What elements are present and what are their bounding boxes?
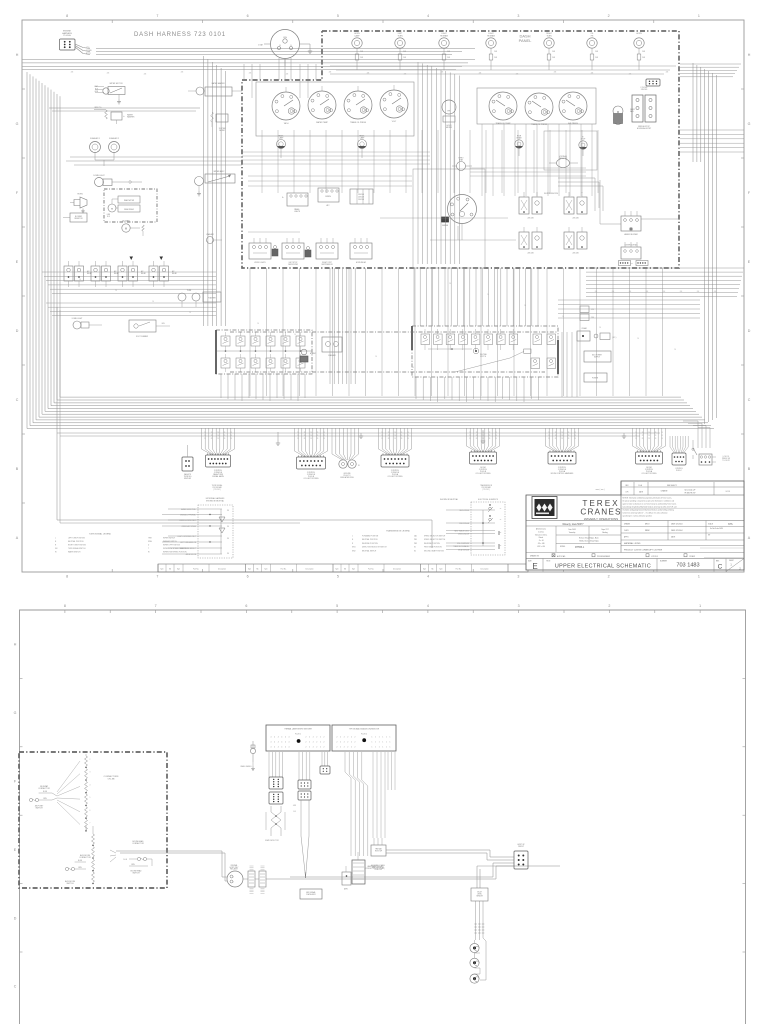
terminal strip X2 — [332, 725, 396, 751]
ECN strip — [621, 482, 744, 520]
svg-text:DOME LIGHT: DOME LIGHT — [72, 318, 83, 320]
text DASH HARNESS 723 0101 — [134, 32, 226, 38]
svg-text:2S: 2S — [637, 338, 639, 340]
svg-text:24S 24S: 24S 24S — [572, 218, 578, 220]
blower motor M5 — [122, 221, 145, 237]
svg-text:2S: 2S — [655, 438, 657, 440]
svg-text:TRANS OIL TEMP: TRANS OIL TEMP — [496, 122, 512, 125]
svg-text:L: L — [55, 538, 56, 540]
svg-text:WIPER OFF POSITION: WIPER OFF POSITION — [163, 545, 181, 547]
svg-text:2S: 2S — [257, 323, 259, 325]
svg-text:BLUE: BLUE — [43, 791, 47, 793]
svg-text:TURN SIG: TURN SIG — [184, 476, 192, 478]
svg-text:2S: 2S — [449, 283, 451, 285]
svg-text:COLLECTOR RING: COLLECTOR RING — [304, 478, 320, 480]
svg-text:1: 1 — [382, 747, 383, 749]
water shutoff — [211, 112, 228, 132]
dash panel enclosure (dashed) — [242, 31, 679, 268]
top area verticals into panel — [244, 64, 316, 98]
svg-text:4: 4 — [278, 742, 279, 744]
svg-text:2: 2 — [351, 742, 352, 744]
svg-text:WAVERLY OPERATIONS: WAVERLY OPERATIONS — [584, 517, 618, 521]
in-panel horizontal runs — [248, 176, 516, 240]
sway detector wires — [269, 752, 283, 777]
flasher glyph between relays 2 — [305, 247, 311, 258]
svg-text:24S: 24S — [71, 72, 74, 74]
upper mid horizontal links — [242, 152, 586, 176]
relay K8 left bank — [149, 261, 177, 287]
svg-text:GROUND LT FROM B+: GROUND LT FROM B+ — [180, 515, 196, 517]
central collector ring assembly — [227, 864, 243, 887]
svg-text:xxxx ( xxx ): xxxx ( xxx ) — [596, 489, 605, 491]
svg-text:2: 2 — [309, 737, 310, 739]
svg-text:WASHER: WASHER — [127, 116, 135, 119]
svg-text:2: 2 — [355, 747, 356, 749]
svg-text:4: 4 — [281, 742, 282, 744]
svg-text:C: C — [718, 564, 723, 571]
transmission legend text — [352, 530, 446, 553]
svg-text:WIPER - LO SPD ON LT: WIPER - LO SPD ON LT — [180, 520, 197, 522]
svg-text:24S: 24S — [249, 73, 252, 75]
svg-text:2: 2 — [344, 742, 345, 744]
svg-text:2S: 2S — [495, 435, 497, 437]
svg-text:SYSTEM: SYSTEM — [219, 128, 226, 130]
wire pair PAT to hoist connector — [386, 850, 514, 860]
suppressor/relay pair Z2 — [564, 192, 587, 220]
svg-text:2S: 2S — [407, 435, 409, 437]
ground at J8 — [481, 430, 485, 443]
svg-text:24S: 24S — [329, 72, 332, 74]
svg-text:SW2-24TH-4B: SW2-24TH-4B — [459, 523, 469, 525]
svg-text:1: 1 — [386, 747, 387, 749]
svg-text:CRANES: CRANES — [580, 508, 621, 517]
svg-text:D: D — [16, 329, 19, 333]
svg-text:2S: 2S — [642, 432, 644, 434]
svg-text:2S: 2S — [489, 435, 491, 437]
svg-text:PLUG A: PLUG A — [63, 34, 71, 37]
svg-text:2: 2 — [337, 747, 338, 749]
svg-text:HORN: HORN — [636, 33, 642, 35]
suppressor/relay pair Z1 — [519, 192, 542, 220]
svg-text:BOOM CONTROL HARNESS: BOOM CONTROL HARNESS — [551, 472, 574, 475]
svg-text:6: 6 — [247, 14, 249, 18]
relay K6 left bank — [91, 261, 119, 287]
resistor pack R6 — [350, 189, 373, 204]
svg-text:4: 4 — [271, 737, 272, 739]
svg-text:SWITCH: SWITCH — [132, 873, 140, 875]
PAT console box — [371, 838, 386, 856]
hourmeter M1 — [442, 100, 456, 129]
svg-text:BLOWER: BLOWER — [75, 216, 83, 218]
svg-text:B+: B+ — [282, 197, 284, 199]
svg-text:2S: 2S — [388, 438, 390, 440]
svg-text:2S: 2S — [495, 432, 497, 434]
svg-text:2S: 2S — [561, 435, 563, 437]
svg-text:2: 2 — [320, 747, 321, 749]
svg-text:8: 8 — [64, 604, 66, 608]
top horizontal wire band — [23, 60, 476, 112]
beacon lamp B2 — [470, 953, 479, 967]
svg-text:1: 1 — [386, 737, 387, 739]
svg-text:2: 2 — [344, 747, 345, 749]
rear wiper motor M4 — [107, 196, 140, 218]
svg-text:2S: 2S — [381, 435, 383, 437]
svg-text:SW2: SW2 — [352, 550, 356, 552]
svg-text:2S: 2S — [487, 294, 489, 296]
svg-text:2S: 2S — [489, 438, 491, 440]
svg-text:WORK LIGHTS: WORK LIGHTS — [254, 262, 265, 264]
svg-text:24S 24S: 24S 24S — [572, 253, 578, 255]
svg-text:5: 5 — [337, 14, 339, 18]
svg-text:24S: 24S — [646, 291, 648, 293]
svg-text:PLUG 2: PLUG 2 — [361, 733, 367, 735]
svg-text:24S: 24S — [595, 291, 597, 293]
svg-text:1: 1 — [382, 737, 383, 739]
flasher F1 — [90, 137, 115, 160]
svg-text:2S: 2S — [655, 435, 657, 437]
svg-text:1: 1 — [699, 604, 701, 608]
svg-text:SWL-F-SW8S-8D: SWL-F-SW8S-8D — [457, 543, 470, 545]
connector J8 — [467, 428, 500, 475]
connector J9 — [546, 428, 579, 475]
jib resistor chain column 1 — [57, 754, 91, 832]
svg-text:TURN SIGNAL LEGEND: TURN SIGNAL LEGEND — [89, 533, 112, 536]
svg-text:SEE SHEET 2: SEE SHEET 2 — [667, 485, 677, 487]
svg-text:PB2: PB2 — [414, 543, 417, 545]
svg-text:24S: 24S — [554, 72, 557, 74]
svg-text:2: 2 — [306, 747, 307, 749]
mid vertical trunk 300-360 — [330, 268, 355, 384]
svg-text:2S: 2S — [297, 435, 299, 437]
beacon lamp B1 — [470, 940, 479, 953]
vertical trunk above transmission box — [414, 268, 538, 326]
svg-text:2S: 2S — [381, 432, 383, 434]
svg-text:TRANSMISSION LEGEND: TRANSMISSION LEGEND — [386, 530, 411, 533]
ATB connector boxes — [298, 780, 311, 800]
transmission selector enclosure (dash-dot) — [412, 326, 558, 377]
amplifier box — [342, 866, 351, 891]
svg-text:GROUND: GROUND — [343, 473, 351, 475]
svg-text:24S: 24S — [629, 291, 631, 293]
svg-text:2S: 2S — [482, 438, 484, 440]
drawn-on row — [530, 554, 744, 558]
svg-text:1: 1 — [372, 742, 373, 744]
svg-text:2S: 2S — [555, 438, 557, 440]
svg-text:2: 2 — [355, 742, 356, 744]
wires exiting jib box — [116, 851, 167, 853]
heater switch module A4 — [600, 180, 680, 236]
voltage reducer U2 — [549, 155, 578, 168]
svg-text:S2: S2 — [414, 550, 416, 552]
svg-text:TURN: TURN — [547, 35, 553, 37]
svg-text:COLLECTOR RING: COLLECTOR RING — [388, 476, 404, 478]
title block frame — [526, 481, 744, 570]
svg-text:Mk: Mk — [256, 569, 258, 571]
heater valve — [188, 82, 242, 96]
svg-text:2S: 2S — [394, 432, 396, 434]
svg-text:WIPER ASSY: WIPER ASSY — [213, 170, 225, 173]
svg-text:TITLE: TITLE — [546, 561, 550, 563]
defroster fan motor B2 — [613, 106, 636, 124]
svg-text:WIPER HIGH SPEED POSITION: WIPER HIGH SPEED POSITION — [163, 552, 187, 554]
svg-text:2: 2 — [337, 742, 338, 744]
svg-text:2S: 2S — [189, 312, 191, 314]
svg-text:DATE 2/5/2004: DATE 2/5/2004 — [671, 529, 682, 532]
note box mid — [596, 489, 605, 491]
svg-text:FLASHER 2: FLASHER 2 — [109, 137, 119, 140]
svg-text:1: 1 — [386, 742, 387, 744]
svg-text:LIGHT LOW SPEED ON LT: LIGHT LOW SPEED ON LT — [178, 536, 197, 538]
wire fan from P1 — [75, 44, 92, 55]
svg-text:PANEL: PANEL — [519, 38, 533, 43]
svg-text:2S: 2S — [204, 435, 206, 437]
ground near J6 — [359, 433, 363, 438]
svg-text:1: 1 — [375, 737, 376, 739]
svg-text:1: 1 — [375, 742, 376, 744]
svg-text:2: 2 — [608, 575, 610, 579]
svg-text:2S: 2S — [469, 438, 471, 440]
indicator lamp DS6 — [587, 33, 599, 70]
svg-text:1: 1 — [390, 737, 391, 739]
svg-text:Mk: Mk — [344, 569, 346, 571]
svg-text:HI BEAM: HI BEAM — [440, 34, 448, 37]
svg-text:C: C — [16, 398, 19, 402]
svg-text:CONNECTOR: CONNECTOR — [132, 843, 144, 845]
svg-text:24S: 24S — [591, 73, 594, 75]
svg-text:24S: 24S — [181, 72, 184, 74]
svg-text:7: 7 — [156, 14, 158, 18]
washer motor M3 — [94, 107, 135, 124]
svg-text:4: 4 — [281, 737, 282, 739]
svg-text:RT555-1: RT555-1 — [575, 546, 585, 549]
beacon connecting wire — [475, 938, 487, 980]
rocker switch block house lights — [632, 87, 656, 130]
instrument cluster box right — [477, 88, 596, 124]
connector J10 — [633, 428, 666, 475]
svg-text:24S 24S: 24S 24S — [527, 218, 533, 220]
control harness neutral ladder — [162, 484, 233, 558]
svg-text:M: M — [125, 228, 127, 231]
svg-text:PE 4891 PB r997: PE 4891 PB r997 — [685, 492, 696, 494]
boom head connector — [110, 840, 152, 875]
svg-text:2: 2 — [316, 742, 317, 744]
svg-text:2S: 2S — [204, 438, 206, 440]
svg-text:HORN: HORN — [77, 194, 83, 196]
svg-text:WT: WT — [708, 535, 710, 537]
svg-text:GN-UY: GN-UY — [477, 892, 482, 894]
right horizontals transmission to trunk — [558, 300, 700, 318]
horn LS1 — [70, 194, 87, 213]
svg-text:.XX ± .030: .XX ± .030 — [538, 543, 545, 545]
svg-text:2: 2 — [351, 737, 352, 739]
sheet 1 border frame — [16, 14, 751, 579]
drops below turn signal box — [221, 374, 305, 401]
svg-text:2S: 2S — [381, 438, 383, 440]
strip B bundle right — [345, 752, 368, 856]
svg-text:AIR PRESS: AIR PRESS — [568, 122, 578, 125]
svg-text:SENSOR: SENSOR — [476, 896, 483, 898]
svg-text:LIGHTS: LIGHTS — [294, 211, 301, 213]
svg-text:3: 3 — [517, 14, 519, 18]
svg-text:REVERSE POSITION: REVERSE POSITION — [362, 543, 379, 545]
svg-text:SHOWN IN NEUTRAL: SHOWN IN NEUTRAL — [440, 498, 458, 501]
foot dimmer switch S3 — [129, 320, 170, 338]
svg-text:LEFT TURN POSITION: LEFT TURN POSITION — [68, 538, 86, 540]
svg-text:2S: 2S — [79, 279, 81, 281]
connector J3 dash/simplex — [182, 445, 193, 480]
relay K2 LEFT STOP DEFROSTER — [282, 238, 304, 266]
collector plug A — [243, 866, 255, 893]
svg-text:HI BEAM: HI BEAM — [487, 34, 495, 37]
svg-text:REDUCER: REDUCER — [559, 158, 568, 160]
dash-dot bus line upper — [230, 331, 558, 333]
indicator lamp DS4 — [486, 33, 498, 70]
svg-text:ELECTRICAL ELEMENTS: ELECTRICAL ELEMENTS — [478, 498, 499, 501]
svg-text:2: 2 — [313, 737, 314, 739]
svg-text:2S: 2S — [297, 432, 299, 434]
washer switch S2 — [206, 233, 222, 244]
siren module A3 — [318, 188, 339, 207]
label SUPPRESSORS — [544, 193, 559, 195]
svg-text:CONTROL: CONTROL — [675, 468, 683, 470]
svg-text:Township: Township — [569, 532, 576, 534]
svg-text:4: 4 — [274, 742, 275, 744]
svg-text:2: 2 — [340, 742, 341, 744]
svg-text:MOO: MOO — [645, 524, 650, 526]
svg-text:2S: 2S — [568, 435, 570, 437]
svg-text:24S: 24S — [714, 291, 716, 293]
wire pair into collector — [167, 851, 227, 881]
svg-text:24S: 24S — [612, 291, 614, 293]
svg-text:1: 1 — [698, 14, 700, 18]
svg-text:OLLE: OLLE — [123, 859, 127, 861]
dark triangle marker 2 — [160, 257, 164, 261]
svg-text:2: 2 — [306, 742, 307, 744]
svg-text:CIGAR: CIGAR — [581, 327, 587, 330]
svg-text:COMB: COMB — [86, 50, 92, 52]
turn signal legend text — [55, 533, 187, 554]
center-left vertical trunk — [204, 56, 226, 326]
svg-text:E: E — [532, 562, 537, 571]
svg-text:2S: 2S — [655, 432, 657, 434]
svg-text:2S: 2S — [648, 432, 650, 434]
svg-text:2S: 2S — [642, 435, 644, 437]
relay K3 RIGHT STOP SUPPRESSOR — [316, 238, 338, 266]
svg-text:LAMP: LAMP — [355, 34, 361, 37]
cable reel assembly — [352, 852, 385, 884]
svg-text:2S: 2S — [642, 438, 644, 440]
lamp feed bus — [330, 66, 676, 74]
svg-text:2: 2 — [313, 747, 314, 749]
svg-text:2S: 2S — [323, 438, 325, 440]
svg-text:2S: 2S — [599, 327, 601, 329]
svg-text:SW1: SW1 — [352, 547, 356, 549]
svg-text:REVERSE POSITION: REVERSE POSITION — [424, 543, 441, 545]
svg-text:24S: 24S — [404, 74, 407, 76]
indicator lamp DS7 — [634, 33, 646, 70]
svg-text:WASHER: WASHER — [206, 233, 214, 236]
svg-text:8: 8 — [66, 575, 68, 579]
svg-text:SEL2-CON-24: SEL2-CON-24 — [459, 510, 469, 512]
svg-text:2S: 2S — [674, 349, 676, 351]
svg-text:C: C — [748, 398, 751, 402]
svg-text:SWITCH: SWITCH — [66, 883, 74, 885]
fuel gauge G8 — [442, 195, 477, 241]
svg-text:2S: 2S — [401, 432, 403, 434]
instrument cluster box left — [256, 82, 414, 136]
svg-text:DEFROSTER: DEFROSTER — [288, 264, 299, 266]
connector J11 spare — [670, 436, 688, 472]
wire run from P1 to dash panel — [96, 49, 475, 55]
panel lights module A2 — [282, 193, 308, 213]
svg-text:7: 7 — [156, 575, 158, 579]
svg-text:REV.: REV. — [716, 561, 720, 563]
svg-text:2S: 2S — [337, 345, 339, 347]
svg-text:WIPER LOW SPEED POSITION: WIPER LOW SPEED POSITION — [163, 548, 187, 550]
gauge feed verticals — [262, 124, 598, 196]
svg-text:BLUE: BLUE — [78, 860, 82, 862]
svg-text:SPEED SELECTOR SWITCH: SPEED SELECTOR SWITCH — [424, 536, 446, 538]
svg-text:8: 8 — [66, 14, 68, 18]
svg-text:24S: 24S — [441, 72, 444, 74]
svg-text:24S 24S: 24S 24S — [358, 197, 364, 199]
svg-text:DOME LIGHT: DOME LIGHT — [93, 175, 105, 177]
svg-text:6: 6 — [247, 575, 249, 579]
svg-text:4: 4 — [285, 747, 286, 749]
relay K7 left bank — [118, 261, 146, 287]
svg-text:H: H — [16, 53, 19, 57]
suppressor/relay pair Z4 — [564, 227, 587, 255]
svg-text:PLUG C: PLUG C — [676, 470, 683, 472]
svg-text:RIGHT STOP: RIGHT STOP — [322, 262, 332, 264]
terminal strip X1 — [266, 725, 330, 751]
svg-text:4: 4 — [274, 737, 275, 739]
svg-text:4: 4 — [281, 747, 282, 749]
svg-text:WATER HEATER: WATER HEATER — [211, 82, 225, 85]
svg-text:5: 5 — [337, 575, 339, 579]
suppressor/relay pair Z3 — [519, 227, 542, 255]
svg-text:6: 6 — [245, 604, 247, 608]
svg-text:Swpr 2/17: Swpr 2/17 — [601, 529, 608, 531]
relay K1 WORK LIGHTS — [249, 238, 271, 264]
svg-text:2: 2 — [320, 742, 321, 744]
svg-text:1: 1 — [352, 536, 353, 538]
svg-text:2S: 2S — [568, 432, 570, 434]
indicator lamp DS3 — [439, 33, 451, 70]
svg-text:2S: 2S — [317, 435, 319, 437]
svg-text:TO OIL PR: TO OIL PR — [722, 460, 730, 462]
gauge G7 AIR PRESS — [559, 92, 587, 125]
svg-text:2S: 2S — [561, 438, 563, 440]
svg-text:BLK: BLK — [107, 216, 110, 218]
aux boom connector — [65, 854, 91, 885]
right vertical trunk — [693, 63, 716, 424]
jib connectors enclosure (dash-dot) — [19, 752, 167, 888]
svg-text:24S: 24S — [629, 74, 632, 76]
long route wire y519 — [57, 307, 432, 548]
connector cab lights — [646, 79, 660, 86]
svg-text:2S: 2S — [204, 432, 206, 434]
svg-text:HOIST UP: HOIST UP — [375, 851, 382, 853]
svg-text:HOIST UP: HOIST UP — [517, 844, 524, 846]
turn signal switch contacts — [217, 332, 312, 372]
AC control module A5 — [621, 242, 641, 259]
title block info rows — [526, 521, 744, 553]
svg-text:2S: 2S — [661, 435, 663, 437]
power outlet J2 — [584, 373, 607, 382]
svg-text:4: 4 — [285, 737, 286, 739]
svg-text:NTS: NTS — [728, 524, 733, 526]
